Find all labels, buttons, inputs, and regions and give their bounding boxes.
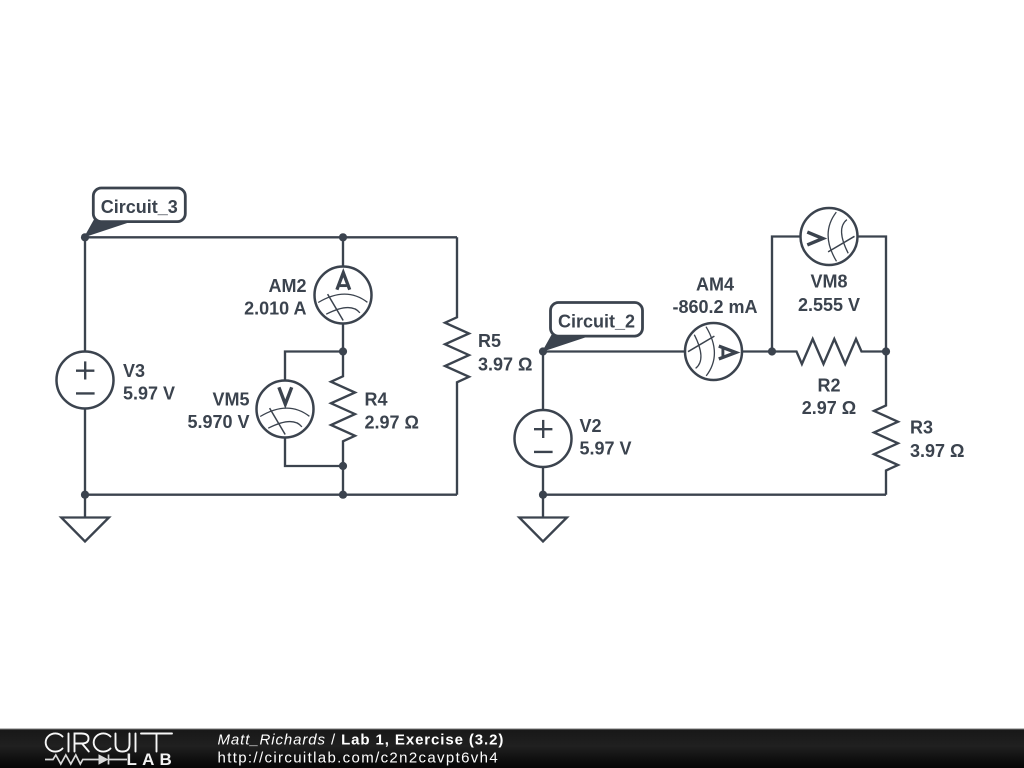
svg-text:3.97 Ω: 3.97 Ω (910, 441, 964, 461)
svg-text:2.555 V: 2.555 V (798, 295, 860, 315)
svg-text:VM5: VM5 (212, 390, 249, 410)
svg-text:2.010 A: 2.010 A (244, 298, 306, 318)
svg-text:V3: V3 (123, 361, 145, 381)
svg-text:R3: R3 (910, 418, 933, 438)
svg-text:VM8: VM8 (810, 272, 847, 292)
svg-text:Matt_Richards / Lab 1, Exercis: Matt_Richards / Lab 1, Exercise (3.2) (218, 732, 505, 749)
svg-text:R2: R2 (817, 376, 840, 396)
svg-text:5.97 V: 5.97 V (580, 438, 632, 458)
svg-text:3.97 Ω: 3.97 Ω (478, 355, 532, 375)
svg-text:R5: R5 (478, 331, 501, 351)
svg-text:2.97 Ω: 2.97 Ω (802, 398, 856, 418)
svg-text:-860.2 mA: -860.2 mA (672, 297, 757, 317)
svg-text:LAB: LAB (127, 750, 178, 768)
svg-text:Circuit_3: Circuit_3 (101, 197, 178, 217)
svg-text:V2: V2 (580, 416, 602, 436)
svg-text:AM4: AM4 (696, 275, 734, 295)
svg-text:2.97 Ω: 2.97 Ω (365, 413, 419, 433)
svg-text:R4: R4 (365, 390, 388, 410)
svg-text:AM2: AM2 (268, 276, 306, 296)
svg-text:5.970 V: 5.970 V (187, 412, 249, 432)
svg-text:http://circuitlab.com/c2n2cavp: http://circuitlab.com/c2n2cavpt6vh4 (218, 750, 500, 767)
svg-text:5.97 V: 5.97 V (123, 384, 175, 404)
svg-text:Circuit_2: Circuit_2 (558, 312, 635, 332)
